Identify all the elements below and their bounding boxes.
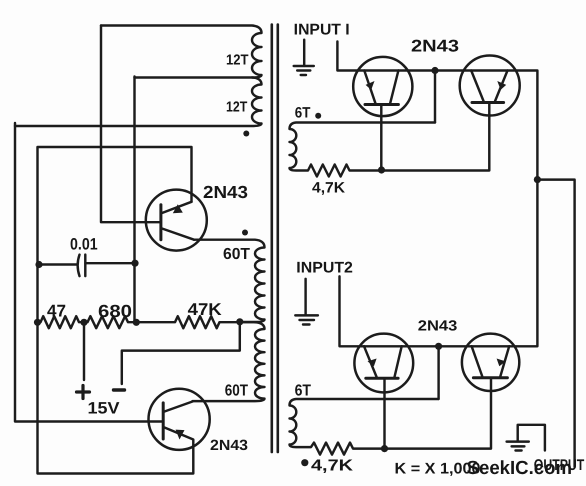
svg-text:6T: 6T	[295, 104, 311, 121]
svg-text:6T: 6T	[295, 383, 312, 400]
svg-text:2N43: 2N43	[411, 37, 459, 56]
svg-text:4,7K: 4,7K	[312, 180, 345, 197]
svg-text:4,7K: 4,7K	[311, 458, 354, 475]
svg-text:SeekIC.com: SeekIC.com	[467, 458, 572, 479]
svg-text:12T: 12T	[226, 100, 247, 116]
svg-text:15V: 15V	[88, 400, 120, 418]
svg-text:680: 680	[98, 301, 132, 321]
svg-text:0.01: 0.01	[70, 236, 98, 254]
svg-text:2N43: 2N43	[210, 438, 248, 454]
svg-text:2N43: 2N43	[203, 182, 248, 202]
svg-text:12T: 12T	[226, 53, 249, 69]
svg-text:60T: 60T	[223, 246, 250, 263]
svg-text:47: 47	[47, 302, 66, 321]
svg-text:INPUT I: INPUT I	[294, 22, 350, 39]
svg-text:47K: 47K	[188, 300, 223, 319]
svg-text:60T: 60T	[225, 383, 248, 400]
svg-text:INPUT2: INPUT2	[296, 260, 353, 277]
svg-text:2N43: 2N43	[418, 319, 458, 335]
